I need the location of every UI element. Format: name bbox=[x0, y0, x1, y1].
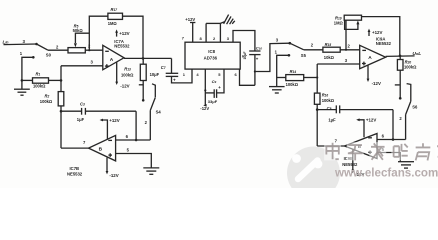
capacitor C8 1uF bbox=[335, 105, 337, 113]
node R1 left bbox=[21, 79, 24, 82]
svg-text:6: 6 bbox=[242, 54, 244, 58]
svg-text:+: + bbox=[218, 85, 221, 90]
wire right column bbox=[316, 64, 318, 93]
tilted chassis ground IC8 top bbox=[224, 15, 229, 24]
svg-text:-12V: -12V bbox=[200, 106, 209, 111]
wire cap C8 row bbox=[317, 109, 336, 111]
svg-text:R16: R16 bbox=[322, 93, 329, 98]
IC8 AD736 box bbox=[185, 42, 240, 69]
op-amp IC7A bbox=[103, 45, 124, 70]
switch S5 bbox=[288, 42, 291, 45]
svg-text:IC8: IC8 bbox=[208, 49, 215, 54]
wire noninverting input bbox=[61, 65, 103, 67]
svg-text:R1: R1 bbox=[36, 72, 41, 77]
node cap left bbox=[60, 110, 63, 113]
supply -12V IC7B bbox=[106, 158, 108, 172]
supply +12V IC7B bbox=[101, 120, 107, 139]
wire left column bottom bbox=[60, 106, 62, 148]
svg-text:Lin: Lin bbox=[3, 40, 10, 45]
switch S4 bbox=[149, 110, 151, 140]
wire pin6 IC9B bbox=[377, 139, 406, 141]
resistor R13 100k vertical bbox=[142, 58, 144, 64]
svg-text:S6: S6 bbox=[412, 104, 418, 109]
capacitor C3 1uF bbox=[81, 108, 83, 115]
svg-text:C9: C9 bbox=[212, 79, 217, 84]
node feedback left bbox=[88, 49, 90, 51]
wire feedback right bbox=[362, 17, 400, 56]
wire output IC7A bbox=[124, 57, 172, 59]
supply -12V IC7A bbox=[116, 62, 118, 83]
resistor R2 100k vertical bbox=[58, 92, 64, 106]
resistor R15 10k bbox=[323, 47, 340, 52]
capacitor C10 10uF bbox=[249, 50, 260, 52]
wire C7 to pin1 bbox=[172, 69, 193, 83]
potentiometer R5 50k bbox=[68, 48, 85, 53]
svg-text:S4: S4 bbox=[156, 110, 162, 115]
pin7 lead +12V bbox=[192, 23, 194, 43]
op-amp IC9B bbox=[345, 134, 378, 159]
wire pot to opamp bbox=[85, 49, 103, 51]
svg-text:100kΩ: 100kΩ bbox=[33, 84, 46, 89]
resistor R17 1M bbox=[108, 13, 123, 19]
ground left bbox=[21, 80, 23, 89]
wire input bbox=[4, 43, 37, 46]
svg-text:A: A bbox=[110, 57, 114, 63]
svg-text:C10: C10 bbox=[256, 45, 263, 50]
pin8 pin2 leads to ground bbox=[205, 23, 207, 42]
svg-text:10μF: 10μF bbox=[150, 72, 160, 77]
svg-text:R14: R14 bbox=[290, 69, 297, 74]
watermark url bbox=[334, 167, 438, 180]
ground IC7B pin5 bbox=[143, 167, 159, 169]
wire noninverting IC9A bbox=[317, 63, 360, 65]
node input pole bbox=[35, 43, 38, 46]
svg-text:NE5532: NE5532 bbox=[376, 41, 392, 46]
capacitor C9 33uF bbox=[205, 92, 214, 94]
svg-text:1MΩ: 1MΩ bbox=[334, 20, 344, 25]
supply -12V IC9A bbox=[367, 65, 369, 80]
svg-text:10kΩ: 10kΩ bbox=[324, 55, 335, 60]
wire contact1 down bbox=[277, 55, 289, 77]
svg-text:IC7B: IC7B bbox=[70, 166, 80, 171]
svg-text:100kΩ: 100kΩ bbox=[121, 72, 134, 77]
svg-text:1μF: 1μF bbox=[328, 118, 336, 123]
svg-text:NE5532: NE5532 bbox=[67, 172, 83, 177]
watermark chinese characters bbox=[324, 142, 438, 160]
svg-text:www.elecfans.com: www.elecfans.com bbox=[334, 167, 438, 180]
svg-text:+12V: +12V bbox=[119, 31, 129, 36]
svg-text:100kΩ: 100kΩ bbox=[404, 65, 417, 70]
supply +12V IC9A bbox=[368, 31, 370, 36]
svg-text:B: B bbox=[99, 146, 103, 152]
resistor R1 100k bbox=[22, 79, 33, 81]
svg-text:50kΩ: 50kΩ bbox=[73, 28, 84, 33]
wire contact1 to ground column bbox=[22, 57, 33, 80]
wire output IC9A bbox=[386, 55, 415, 58]
svg-text:1MΩ: 1MΩ bbox=[108, 21, 118, 26]
wire cap C3 row bbox=[61, 110, 82, 112]
svg-text:NE5532: NE5532 bbox=[114, 43, 130, 48]
svg-text:100kΩ: 100kΩ bbox=[286, 82, 299, 87]
wire pin5 IC9B to ground bbox=[377, 153, 400, 162]
svg-text:R15: R15 bbox=[325, 42, 332, 47]
svg-text:+12V: +12V bbox=[372, 30, 382, 35]
supply +12V IC9B bbox=[358, 120, 364, 137]
wire R15 to opamp bbox=[340, 49, 360, 51]
supply -12V IC9B bbox=[352, 150, 354, 171]
switch S6 bbox=[407, 84, 411, 102]
watermark logo circle bbox=[287, 147, 340, 200]
svg-text:+12V: +12V bbox=[366, 118, 376, 123]
svg-text:R17: R17 bbox=[111, 7, 118, 12]
wire left column top bbox=[60, 66, 62, 92]
node feedback tap bbox=[345, 49, 347, 51]
op-amp IC9A bbox=[360, 45, 386, 68]
switch S0 bbox=[37, 44, 49, 50]
capacitor C7 10uF bbox=[171, 58, 173, 73]
svg-text:+: + bbox=[256, 56, 259, 61]
wire S0 to potentiometer bbox=[48, 49, 68, 51]
ground S5 bbox=[276, 78, 278, 87]
svg-text:A: A bbox=[368, 55, 372, 61]
svg-text:1μF: 1μF bbox=[77, 117, 85, 122]
wire to R15 bbox=[304, 49, 323, 51]
node C10 junction bbox=[254, 70, 256, 72]
pin3 lead to C10 bbox=[233, 31, 255, 52]
svg-text:S5: S5 bbox=[301, 53, 307, 58]
svg-text:AD736: AD736 bbox=[204, 56, 218, 61]
svg-text:S0: S0 bbox=[46, 53, 52, 58]
wire C10 down bbox=[254, 55, 256, 86]
wire feedback right bbox=[123, 16, 144, 58]
svg-text:+: + bbox=[173, 77, 176, 82]
svg-text:100kΩ: 100kΩ bbox=[322, 98, 335, 103]
resistor R14 100k bbox=[286, 75, 304, 81]
ground IC9B pin5 bbox=[398, 161, 414, 163]
svg-text:-12V: -12V bbox=[372, 81, 381, 86]
svg-text:33μF: 33μF bbox=[208, 99, 218, 104]
potentiometer R19 1M bbox=[344, 15, 361, 20]
wire pin6 loop bbox=[240, 69, 255, 85]
pin4 lead -12V bbox=[204, 69, 206, 105]
svg-text:+12V: +12V bbox=[109, 118, 119, 123]
svg-text:C3: C3 bbox=[80, 102, 85, 107]
op-amp IC7B bbox=[89, 135, 116, 161]
svg-text:R13: R13 bbox=[124, 66, 131, 71]
supply +12V IC7A bbox=[116, 32, 118, 37]
wire pin5 IC7B to ground bbox=[116, 154, 152, 168]
node feedback output bbox=[142, 57, 145, 60]
wire pin6 IC7B bbox=[116, 139, 151, 141]
svg-text:-12V: -12V bbox=[120, 84, 129, 89]
svg-text:+12V: +12V bbox=[185, 17, 195, 22]
node cap right column bbox=[316, 108, 319, 111]
wire output IC9B bbox=[317, 145, 344, 147]
wire feedback left vertical bbox=[89, 16, 108, 50]
wire output IC7B bbox=[61, 147, 89, 149]
svg-text:C7: C7 bbox=[161, 65, 166, 70]
resistor R20 100k vertical bbox=[399, 56, 401, 60]
wire to S5 pole bbox=[255, 43, 290, 71]
wire C3 down to pin6 bbox=[135, 111, 137, 140]
node R14 right bbox=[316, 76, 318, 78]
node noninverting junction bbox=[60, 79, 63, 82]
svg-text:-12V: -12V bbox=[109, 173, 118, 178]
resistor R16 100k vertical bbox=[314, 93, 320, 104]
svg-text:100kΩ: 100kΩ bbox=[40, 99, 53, 104]
